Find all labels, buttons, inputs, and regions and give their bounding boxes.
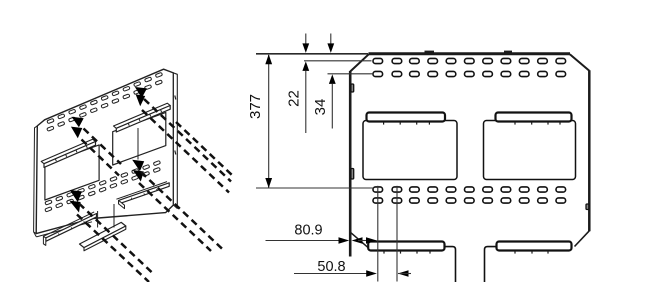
dim 80.9 inner right arrow bbox=[366, 237, 377, 244]
down arrow stem 2 bbox=[330, 34, 332, 46]
iso dashed axis A1a bbox=[84, 129, 122, 165]
plate top-right chamfer bbox=[570, 54, 590, 71]
dim 80.9 inner line bbox=[358, 240, 371, 242]
dim 22 stem bbox=[305, 71, 307, 134]
iso foot bracket 1 right post bbox=[97, 211, 99, 228]
bottom-left rail bbox=[368, 242, 444, 251]
iso insertion arrow pair bottom-left bbox=[70, 190, 82, 202]
iso top-right rail top face bbox=[114, 103, 171, 128]
iso detached right rail top line bbox=[116, 182, 167, 200]
iso insertion arrow pair top-right bbox=[135, 87, 147, 98]
plate left edge bbox=[349, 71, 352, 257]
bottom-right rail ticks bbox=[514, 251, 516, 254]
2D front view: plate top edge bbox=[369, 52, 571, 55]
iso dashed axis A2c bbox=[176, 122, 233, 176]
iso flange hole upper bbox=[175, 96, 176, 100]
iso dashed axis A2b bbox=[142, 110, 229, 193]
iso detached right rail post bbox=[113, 204, 115, 228]
iso top-left rail top face bbox=[41, 139, 95, 164]
plate bottom-left notch diagonal bbox=[351, 233, 369, 248]
iso top-left rail front face bbox=[44, 142, 96, 168]
iso foot bracket 1 ticks bbox=[58, 233, 61, 235]
iso top-right cutout bbox=[113, 112, 166, 165]
iso detached right rail bar bbox=[119, 183, 170, 204]
extension line top (line A) bbox=[256, 53, 368, 55]
iso top-left rail ticks bbox=[55, 159, 56, 161]
iso dashed axis A2a bbox=[144, 99, 231, 182]
iso detached right rail left curl bbox=[119, 200, 125, 208]
iso top-left cutout bbox=[45, 145, 99, 200]
top-left cutout bbox=[363, 121, 457, 180]
iso dashed axis A3b bbox=[77, 215, 149, 282]
svg-text:50.8: 50.8 bbox=[317, 259, 345, 275]
dim 50.8 tail line bbox=[398, 273, 411, 275]
iso dashed axis A1b bbox=[82, 140, 120, 176]
iso hole band row3 bbox=[45, 200, 52, 205]
iso foot bracket 1 top line bbox=[43, 212, 94, 236]
right edge tab bbox=[586, 204, 589, 210]
dimension 377 vertical line bbox=[268, 55, 270, 188]
top-right rail bbox=[496, 113, 572, 122]
iso foot bracket 1 bar bbox=[46, 214, 97, 242]
bottom-right rail bbox=[497, 242, 572, 251]
svg-text:377: 377 bbox=[247, 94, 264, 119]
down arrow stem 1 bbox=[305, 34, 307, 46]
down arrow 2 bbox=[327, 43, 334, 53]
extension line row2 (line C) bbox=[328, 73, 374, 75]
extension line row1 (line B) bbox=[304, 60, 372, 62]
iso foot bracket 2 front bbox=[84, 226, 126, 251]
dim 50.8 right arrow bbox=[398, 270, 409, 277]
iso hole band row2 bbox=[47, 126, 54, 131]
iso detached right rail ticks bbox=[130, 198, 133, 200]
top edge tab left bbox=[425, 51, 435, 53]
top-left rail bbox=[367, 113, 446, 122]
bottom-left cutout right edge bbox=[445, 247, 456, 282]
iso dashed axis A4a bbox=[141, 172, 225, 252]
down arrow 1 bbox=[302, 43, 309, 53]
svg-text:80.9: 80.9 bbox=[294, 223, 322, 239]
iso vertical stem above bottom-right arrows bbox=[137, 128, 139, 160]
svg-text:22: 22 bbox=[286, 90, 303, 107]
iso foot bracket 2 flange bbox=[80, 222, 126, 247]
plate right edge bbox=[588, 70, 591, 231]
plate top-left chamfer bbox=[350, 54, 369, 71]
column 2 extension line bbox=[396, 186, 398, 282]
extension line bottom (row3 level) bbox=[256, 187, 374, 189]
dim 377 top arrow bbox=[265, 54, 272, 64]
bottom-left rail ticks bbox=[383, 251, 385, 254]
iso dashed axis A4b bbox=[139, 183, 211, 251]
left edge tab lower bbox=[351, 169, 354, 180]
iso dashed axis A3a bbox=[79, 204, 152, 273]
iso hole band row4 bbox=[45, 207, 52, 212]
dim 34 up arrow bbox=[329, 74, 336, 84]
dim 50.8 left arrow bbox=[366, 270, 377, 277]
dim 80.9 leader line bbox=[266, 240, 340, 242]
iso top-right rail front face bbox=[116, 106, 170, 133]
dim 80.9 inner left arrow bbox=[352, 237, 363, 244]
dim 34 stem bbox=[331, 84, 333, 129]
iso flange hole lower bbox=[175, 151, 176, 155]
dim 22 up arrow bbox=[302, 61, 309, 71]
top edge tab right bbox=[504, 51, 512, 53]
top-left rail ticks bbox=[383, 122, 385, 125]
iso insertion arrow pair bottom-right bbox=[132, 160, 144, 171]
iso plate outline bbox=[36, 69, 173, 233]
iso insertion arrow pair top-left bbox=[72, 117, 84, 128]
iso plate left thickness bbox=[34, 126, 38, 234]
iso right flange bbox=[173, 73, 177, 209]
top-right rail ticks bbox=[514, 122, 516, 125]
column 1 extension line bbox=[377, 186, 379, 282]
left edge tab upper bbox=[351, 84, 354, 92]
iso plate bottom thickness bbox=[36, 222, 92, 237]
bottom-right cutout left edge bbox=[485, 247, 497, 282]
perforation holes: 4 rows x 11 columns bbox=[373, 58, 383, 63]
iso top-right rail ticks bbox=[128, 123, 129, 125]
top-right cutout bbox=[484, 121, 576, 180]
iso hole band row1 bbox=[47, 118, 54, 123]
dim 50.8 line bbox=[294, 273, 367, 275]
dim 80.9 arrow at plate edge bbox=[339, 237, 350, 244]
plate bottom-right chamfer bbox=[575, 231, 590, 247]
dim 377 bottom arrow bbox=[265, 178, 272, 188]
svg-text:34: 34 bbox=[312, 99, 329, 116]
iso foot bracket 1 left tab bbox=[43, 236, 45, 245]
